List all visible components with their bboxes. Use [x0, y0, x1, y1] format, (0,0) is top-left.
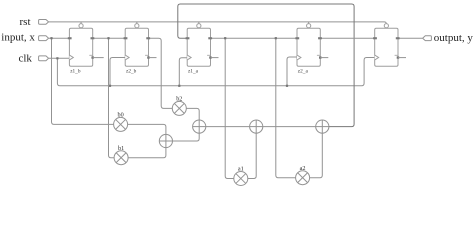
wire clk riser to z1_a: [179, 58, 187, 86]
junction y1 branch a1: [224, 37, 226, 39]
wire rst rail: [49, 22, 386, 24]
svg-text:z2_a: z2_a: [298, 68, 309, 74]
adder S4: [316, 120, 329, 133]
wire clk drop and rail: [57, 58, 374, 86]
rst input port: [39, 20, 49, 25]
wire x1 branch down to b1: [109, 38, 115, 158]
wire input x branch down to b0: [52, 38, 114, 124]
flip-flop output register: [373, 24, 406, 67]
svg-text:rst: rst: [20, 16, 31, 28]
wire clk riser to z2_a: [287, 57, 297, 86]
input x port: [39, 36, 49, 41]
wire adder S3 out to adder S4: [263, 126, 317, 128]
wire rst drop to z2_a: [308, 22, 310, 24]
wire rst drop to z1_a: [198, 22, 200, 24]
wire rst drop to z2_b: [136, 22, 138, 24]
multiplier b1: [114, 145, 128, 165]
multiplier b2: [172, 96, 186, 116]
wire z1_a Q to z2_a D: [211, 37, 297, 39]
svg-text:a1: a1: [238, 165, 244, 172]
svg-text:input, x: input, x: [1, 32, 35, 44]
flip-flop z2_b: [124, 24, 157, 75]
junction clk riser z2_a: [286, 85, 288, 87]
junction x1 branch: [107, 37, 109, 39]
wire y1 branch down to a1: [225, 38, 234, 178]
wire y1 branch down to a2: [276, 38, 296, 178]
junction input x branch: [50, 37, 52, 39]
wire output register Q to output port: [398, 37, 422, 39]
wire z2_b Q down to b2: [149, 38, 173, 108]
svg-text:clk: clk: [18, 52, 32, 64]
wire z2_a Q to output register D: [320, 37, 374, 39]
wire b1 out to adder S1 bottom: [128, 147, 166, 157]
adder S2: [193, 120, 206, 133]
wire clk riser to z2_b: [110, 58, 125, 86]
clk input port: [39, 56, 49, 61]
flip-flop z1_b: [68, 24, 104, 75]
wire b2 out to adder S2 top: [186, 108, 199, 120]
wire b0 out to adder S1 top: [128, 124, 166, 134]
multiplier a2: [296, 165, 310, 185]
flip-flop z1_a: [186, 24, 219, 75]
output y port: [423, 36, 432, 41]
junction clk branch: [56, 57, 58, 59]
wire adder S1 out to adder S2 bottom: [172, 133, 199, 141]
wire a1 out to adder S3 bottom: [248, 133, 256, 179]
adder S3: [250, 120, 263, 133]
svg-text:z1_b: z1_b: [70, 68, 81, 74]
multiplier a1: [234, 165, 248, 185]
junction clk riser z2_b: [109, 85, 111, 87]
wire z1_b Q to z2_b D: [93, 37, 126, 39]
wire input x to z1_b D: [49, 37, 69, 39]
adder S1: [159, 134, 172, 147]
svg-text:b0: b0: [118, 112, 124, 119]
wire clk to z1_b clock: [49, 57, 69, 59]
wire feedback adder S4 out to z1_a D: [178, 4, 354, 127]
svg-text:a2: a2: [300, 165, 306, 172]
svg-text:output, y: output, y: [434, 32, 474, 44]
wire rst drop to z1_b: [80, 22, 82, 24]
wire adder S2 out to adder S3: [206, 126, 250, 128]
junction clk riser z1_a: [178, 85, 180, 87]
svg-text:b2: b2: [176, 96, 182, 103]
junction y1 branch a2: [275, 37, 277, 39]
wire a2 out to adder S4 bottom: [310, 133, 323, 178]
svg-text:z2_b: z2_b: [126, 68, 137, 74]
flip-flop z2_a: [295, 24, 328, 75]
multiplier b0: [114, 112, 128, 132]
svg-text:z1_a: z1_a: [188, 68, 199, 74]
svg-text:b1: b1: [118, 145, 124, 152]
